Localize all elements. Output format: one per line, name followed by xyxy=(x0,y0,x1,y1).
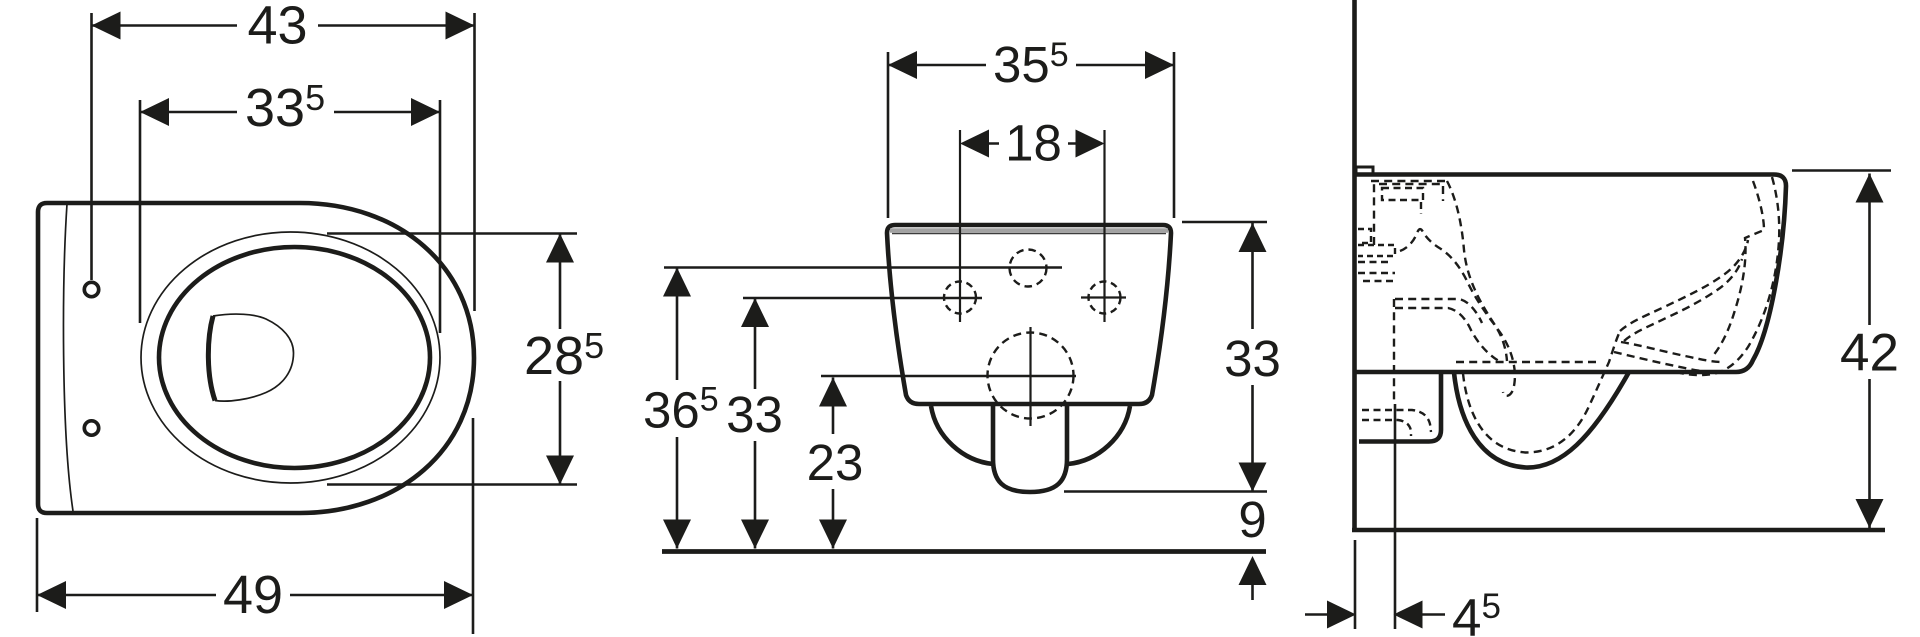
dimension 4.5 extension line drain axis xyxy=(1394,404,1397,629)
body outline (front view) xyxy=(887,225,1171,404)
dashed drain trap step 1 xyxy=(1362,410,1431,432)
dashed drain centerline vertical xyxy=(1393,299,1395,404)
water inlet dashed circle (top center) xyxy=(1010,250,1047,287)
bowl silhouette left (front) xyxy=(931,406,993,464)
dimension 33 left line xyxy=(754,298,757,549)
leader line 33 left (to fixing holes) xyxy=(743,297,982,300)
dimension 35.5 extension line left xyxy=(887,52,890,218)
dimension 36.5 arrow top xyxy=(663,268,691,297)
svg-text:49: 49 xyxy=(223,565,283,625)
dimension 18 arrow left xyxy=(960,130,989,158)
dashed sump top line 2 xyxy=(1395,308,1499,361)
dimension 42 extension line top xyxy=(1792,169,1891,172)
dimension 49 extension line right xyxy=(472,418,475,634)
dimension 42 arrow bottom xyxy=(1856,499,1884,528)
bowl U (side) xyxy=(1454,372,1629,468)
dimension 35.5 arrow right xyxy=(1145,51,1174,79)
dimension 36.5 arrow bottom xyxy=(663,520,691,549)
wall line xyxy=(1352,0,1357,530)
fixing hole dashed circle right xyxy=(1089,282,1121,314)
dashed wall fitting small rect 1 xyxy=(1358,229,1371,243)
drain circle centerline vertical xyxy=(1029,327,1031,426)
dimension 43 arrow right xyxy=(446,12,475,40)
dashed flush channel lower pair line 2 xyxy=(1614,352,1716,372)
fixing hole dashed circle left xyxy=(944,282,976,314)
dimension 23 arrow top xyxy=(819,378,847,407)
leader line 23 (to drain center) xyxy=(821,375,1076,378)
dimension 33 right arrow bottom xyxy=(1239,463,1267,492)
dimension 33.5 arrow right xyxy=(411,98,440,126)
dimension 33 right line xyxy=(1251,223,1254,492)
dimension 28.5 arrow bottom xyxy=(546,456,574,485)
dimension 33.5 line xyxy=(140,111,440,114)
dashed flush channel upper pair line 1 xyxy=(1620,240,1748,331)
seat fixing hole bottom xyxy=(84,421,98,435)
dashed port bottom-right tick xyxy=(1420,202,1422,214)
dimension 9 arrow tail xyxy=(1251,585,1254,600)
dimension 33.5 arrow left xyxy=(140,98,169,126)
body profile: top edge, right edge, bottom rim xyxy=(1356,175,1786,373)
dimension 33 left arrow top xyxy=(741,298,769,327)
dimension 35.5 extension line right xyxy=(1173,52,1176,218)
drain outlet solid (side) xyxy=(1359,372,1441,442)
dimension 49 line xyxy=(37,594,473,597)
dimension 43 extension line left xyxy=(90,13,93,280)
dimension 33.5 extension line right xyxy=(439,100,442,333)
dimension 35.5 line xyxy=(888,64,1174,67)
dimension 9 arrow (below floor pointing up) xyxy=(1239,556,1267,585)
dimension 4.5 arrow right tail xyxy=(1423,613,1446,616)
toilet outer outline (top view) xyxy=(38,203,474,513)
dimension 28.5 extension line bottom xyxy=(327,483,577,486)
dimension 28.5 arrow top xyxy=(546,234,574,263)
floor line (side view) xyxy=(1352,528,1885,533)
dashed bowl back wall outer xyxy=(1680,177,1779,375)
svg-text:33: 33 xyxy=(1224,330,1281,387)
leader line 33 right top (from body top edge) xyxy=(1182,221,1267,224)
dashed drain trap step 2 xyxy=(1362,420,1411,436)
dashed wall fitting lines lower xyxy=(1358,262,1395,281)
dimension 18 arrow right xyxy=(1076,130,1105,158)
dimension 43 extension line right xyxy=(473,13,476,311)
dimension 18 extension line left / hole centerline xyxy=(959,130,961,322)
dimension 35.5 arrow left xyxy=(888,51,917,79)
dimension 18 extension line right / hole centerline xyxy=(1103,130,1105,322)
rim edge thin line under top edge xyxy=(892,233,1166,235)
dimension 49 arrow right xyxy=(444,581,473,609)
dimension 33.5 extension line left xyxy=(139,100,142,323)
svg-text:43: 43 xyxy=(247,0,307,56)
dimension 42 line xyxy=(1868,174,1871,529)
leader line 33/9 boundary (from drain bottom) xyxy=(1064,490,1267,493)
dimension 4.5 extension line wall xyxy=(1354,540,1357,629)
dimension 33 left arrow bottom xyxy=(741,520,769,549)
drain outlet U (front) xyxy=(993,404,1067,492)
dimension 18 line xyxy=(989,142,1076,145)
dimension 33 right arrow top xyxy=(1239,223,1267,252)
dashed inlet channel outer wall xyxy=(1447,181,1515,396)
dimension 43 line xyxy=(92,24,475,27)
dimension 36.5 line xyxy=(676,268,679,549)
top edge small lip xyxy=(1356,167,1373,175)
dashed sump top line 1 xyxy=(1395,299,1482,323)
bowl silhouette right (front) xyxy=(1068,406,1130,464)
water surface outline thin part xyxy=(213,314,294,401)
seat outer rim (thin ellipse) xyxy=(141,232,440,483)
ceramic edge thin line (left) xyxy=(63,204,73,511)
dashed inner bowl horizontal xyxy=(1456,361,1600,363)
dimension 49 arrow left xyxy=(37,581,66,609)
dashed inlet channel inner wall xyxy=(1400,229,1507,361)
dimension 42 arrow top xyxy=(1856,174,1884,203)
svg-text:23: 23 xyxy=(807,434,864,491)
dashed bowl U inner (side) xyxy=(1463,331,1620,453)
dimension 4.5 arrow right (pointing left) xyxy=(1394,601,1423,629)
leader line 36.5 (to inlet center) xyxy=(664,266,1062,269)
dashed bowl back wall inner xyxy=(1712,181,1764,357)
dashed inlet port outline xyxy=(1374,184,1443,245)
drain dashed circle xyxy=(988,333,1074,419)
dimension 4.5 arrow left (pointing right) xyxy=(1327,601,1356,629)
fixing hole right crosshair horizontal xyxy=(1081,296,1126,298)
dimension 4.5 arrow left tail xyxy=(1305,613,1327,616)
seat fixing hole top xyxy=(84,282,98,296)
dashed rim line under top edge xyxy=(1371,180,1447,182)
dimension 49 extension line left xyxy=(36,518,39,612)
bowl inner rim (thick ellipse) xyxy=(159,247,430,468)
water surface outline thick part xyxy=(208,316,215,401)
svg-text:33: 33 xyxy=(726,386,783,443)
svg-text:42: 42 xyxy=(1840,324,1899,383)
rim top surface gray band xyxy=(890,228,1168,233)
dimension 28.5 extension line top xyxy=(327,232,577,235)
dimension 23 arrow bottom xyxy=(819,520,847,549)
dashed wall fitting small rect 2 xyxy=(1358,245,1395,256)
dashed flush channel upper pair line 2 xyxy=(1624,259,1742,341)
dimension 28.5 line xyxy=(559,234,562,485)
svg-text:9: 9 xyxy=(1238,491,1266,548)
dimension 23 line xyxy=(832,378,835,549)
dimension 43 arrow left xyxy=(92,12,121,40)
dashed flush channel lower pair line 1 xyxy=(1621,342,1722,362)
dashed inlet port inner rect xyxy=(1382,188,1423,200)
floor line (front view) xyxy=(662,549,1266,554)
svg-text:18: 18 xyxy=(1005,115,1062,172)
